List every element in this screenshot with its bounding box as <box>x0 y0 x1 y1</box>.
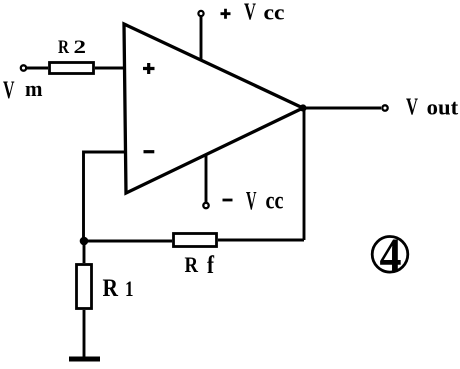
svg-text:V: V <box>244 0 256 26</box>
svg-text:m: m <box>25 76 43 101</box>
svg-text:4: 4 <box>380 229 402 282</box>
svg-text:cc: cc <box>266 188 284 215</box>
svg-text:1: 1 <box>125 276 134 301</box>
svg-text:out: out <box>427 95 459 120</box>
svg-text:V: V <box>406 95 418 121</box>
svg-text:V: V <box>246 187 257 216</box>
svg-text:V: V <box>3 77 15 104</box>
svg-text:2: 2 <box>74 37 87 58</box>
svg-text:R: R <box>103 275 119 302</box>
svg-text:cc: cc <box>264 0 285 25</box>
svg-text:R: R <box>58 37 69 58</box>
svg-text:f: f <box>207 252 215 279</box>
svg-text:R: R <box>185 252 199 277</box>
